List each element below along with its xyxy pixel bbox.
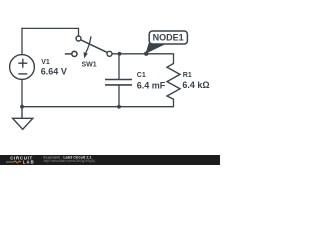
wire C1 bottom lead: [118, 85, 120, 107]
wire top horizontal: [22, 28, 79, 36]
switch left terminal circle: [72, 51, 77, 56]
ground: [13, 107, 33, 130]
node NODE1 flag: [144, 31, 187, 56]
svg-text:LAB: LAB: [23, 160, 35, 165]
switch right terminal circle: [107, 51, 112, 56]
svg-text:C1: C1: [137, 72, 146, 79]
wire bottom horizontal: [22, 99, 174, 106]
switch actuation arrow: [86, 36, 91, 53]
switch top terminal circle: [76, 36, 81, 41]
footer bar: [0, 155, 220, 165]
switch blade: [81, 40, 108, 53]
resistor R1: [167, 64, 180, 100]
svg-text:R1: R1: [183, 72, 192, 79]
wire switch to R1 horizontal: [112, 54, 174, 64]
svg-text:http://circuitlab.com/c/3h4g2b: http://circuitlab.com/c/3h4g2b3q3lj: [44, 159, 96, 163]
switch left stub: [65, 53, 72, 55]
voltage source V1: [10, 55, 35, 80]
svg-text:SW1: SW1: [82, 61, 97, 68]
footer logo LAB: [6, 160, 35, 165]
junction dot at ground: [20, 105, 24, 109]
wire C1 top lead: [118, 54, 120, 79]
wire V1 bottom lead: [21, 80, 23, 107]
svg-text:6.4 kΩ: 6.4 kΩ: [182, 80, 209, 90]
svg-text:6.64 V: 6.64 V: [41, 67, 67, 77]
svg-text:V1: V1: [41, 59, 50, 66]
junction dot at C1 bottom: [117, 105, 121, 109]
svg-text:NODE1: NODE1: [153, 33, 184, 43]
wire top lead of V1: [21, 28, 23, 54]
svg-text:6.4 mF: 6.4 mF: [137, 80, 166, 90]
switch SW1: [65, 36, 112, 58]
junction dot at C1 top: [118, 52, 122, 56]
capacitor C1: [105, 80, 132, 85]
